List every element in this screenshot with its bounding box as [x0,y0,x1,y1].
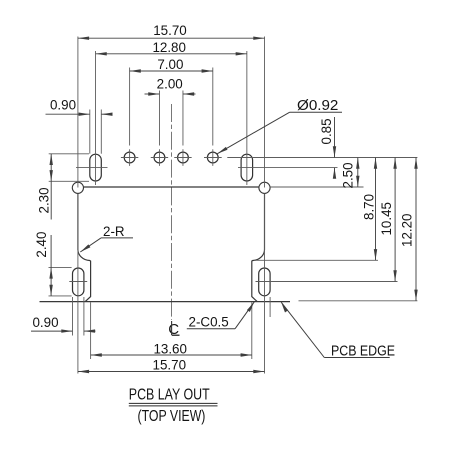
wire: hole H1 vertical tick [129,149,131,166]
dimension 2.00 [145,92,196,95]
wire: 12.80 extension right through top slot [246,51,248,185]
slot top-right [241,154,253,181]
dimension 15.70 top [78,37,265,40]
svg-text:2.50: 2.50 [340,162,355,188]
svg-text:(TOP VIEW): (TOP VIEW) [138,408,206,425]
wire: long extension line right upper [264,37,266,188]
wire: 12.20 extension (bottom edge to right) [299,300,418,302]
dimension 12.20 right [414,158,417,301]
dimension 0.90 bottom-left [31,329,96,332]
wire: bottom slot left horizontal crosshair [69,281,87,283]
wire: top 0.90 extension left [89,110,91,154]
wire: hole row line to right dims [227,157,417,159]
wire: 2.40 extension bottom [49,295,72,297]
svg-text:10.45: 10.45 [379,202,394,236]
wire: long extension line left lower [77,194,79,374]
svg-text:15.70: 15.70 [153,357,187,372]
dimension 12.80 [96,52,247,55]
wire: hole H2 vertical tick [158,149,160,166]
wire: centerline vertical dash-dot [171,104,173,320]
wire: long extension line right lower [264,194,266,374]
wire: top 0.90 extension right [100,110,102,154]
wire: bottom slot right edge short extension [269,297,271,317]
dimension 13.60 bottom [91,353,252,356]
svg-text:12.20: 12.20 [400,213,415,247]
dimension 0.90 top-left [46,113,113,116]
wire: hole H4 vertical tick [212,149,214,166]
bottom edge with extensions [40,301,291,303]
leader and label diameter 0.92 [217,112,342,154]
wire: 2.30 extension bottom [49,180,89,182]
wire: 2.00 extension left [158,91,160,146]
notch circle right 2-R [259,182,270,193]
svg-text:2-R: 2-R [103,224,125,239]
notch circle left 2-R [72,182,83,193]
slot bottom-left [73,268,84,296]
dimension 8.70 right [374,158,377,261]
wire: 2.30 extension top [49,153,89,155]
dimension 10.45 right [393,158,396,282]
wire: 2.50 extension (top edge to right) [270,186,363,188]
slot top-left [90,154,102,181]
left side edge segment [77,193,79,249]
dimension 2.30 left [50,154,53,220]
title underline double rule [129,403,218,406]
wire: 8.70 extension (ear top to right) [254,259,378,261]
slot bottom-right [259,268,270,296]
hole H1 [124,152,135,163]
hole H4 [207,152,218,163]
wire: bottom 0.90 extension left [72,297,74,336]
svg-text:0.90: 0.90 [32,315,58,330]
wire: hole H3 horizontal tick [174,157,191,159]
wire: 2.00 extension right [182,91,184,146]
dimension 0.85 right [333,117,336,179]
svg-text:0.90: 0.90 [50,98,76,113]
wire: hole H3 vertical tick [182,149,184,166]
wire: 13.60 extension left [90,302,92,359]
wire: 2.40 extension top [49,266,72,268]
svg-text:PCB EDGE: PCB EDGE [331,344,395,360]
dimension 2.50 right [356,158,359,188]
leader and label PCB EDGE [281,302,390,357]
wire: bottom slot right horizontal crosshair + 10.45 extension [256,281,398,283]
wire: long extension line left upper (15.70 / slot centers) [77,37,79,188]
wire: 7.00 extension left [129,68,131,146]
svg-text:2.40: 2.40 [34,232,49,258]
board outline [40,187,291,302]
svg-text:12.80: 12.80 [152,40,186,55]
leader and label 2-C0.5 [187,302,255,329]
leader and label 2-R [80,238,133,252]
hole H3 [178,152,189,163]
dimension 15.70 bottom [78,370,265,373]
svg-text:13.60: 13.60 [153,341,187,356]
svg-text:2.00: 2.00 [157,76,183,91]
wire: top slot left horizontal crosshair [76,167,108,169]
svg-text:PCB LAY OUT: PCB LAY OUT [129,387,210,404]
dimension 7.00 [130,69,213,72]
svg-text:2-C0.5: 2-C0.5 [189,315,229,330]
wire: 13.60 extension right [251,302,253,359]
wire: 12.80 extension left through top slot [95,51,97,185]
svg-text:8.70: 8.70 [361,194,376,220]
svg-text:0.85: 0.85 [319,118,334,144]
dimension 2.40 left [49,235,52,296]
svg-text:2.30: 2.30 [36,187,51,213]
svg-text:Ø0.92: Ø0.92 [297,97,338,114]
right side edge segment [264,193,266,249]
svg-text:7.00: 7.00 [157,57,183,72]
wire: hole H4 horizontal tick [204,157,222,159]
wire: hole H1 horizontal tick [121,157,138,159]
svg-text:15.70: 15.70 [153,23,187,38]
wire: 7.00 extension right [212,68,214,146]
wire: top slot right horizontal crosshair + 0.85 extension [238,167,338,169]
wire: bottom 0.90 extension right [83,297,85,336]
hole H2 [154,152,165,163]
wire: hole H2 horizontal tick [151,157,168,159]
